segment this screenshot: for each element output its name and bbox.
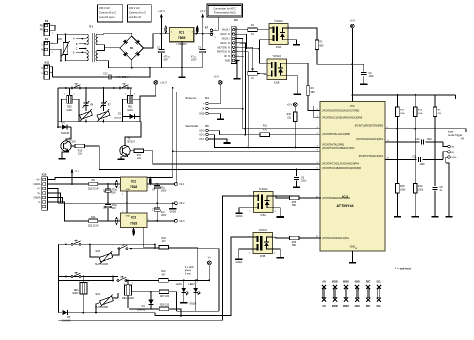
svg-text:(PCINT1/AIN0/ADC1)PA1: (PCINT1/AIN0/ADC1)PA1 [322,237,349,240]
svg-text:G2R2: G2R2 [72,292,79,295]
svg-text:R28 220: R28 220 [160,304,170,307]
svg-text:100k: 100k [400,189,406,192]
svg-text:1: 1 [132,283,133,285]
svg-text:MISO: MISO [343,281,349,283]
svg-text:ATTINY44: ATTINY44 [336,204,354,208]
svg-text:a-b: a-b [75,84,78,86]
svg-text:100V: 100V [161,189,167,192]
svg-text:RE1: RE1 [128,107,133,109]
svg-text:(PCINT4/T1/SCL/USCK/ADC4)PA4: (PCINT4/T1/SCL/USCK/ADC4)PA4 [322,163,359,166]
svg-text:(PCINT3/T0/ADC3)PA3: (PCINT3/T0/ADC3)PA3 [359,155,384,158]
svg-text:IC6B: IC6B [274,81,280,84]
svg-text:PE: PE [40,25,44,28]
svg-text:+12 V: +12 V [158,9,165,13]
svg-text:2: 2 [64,94,65,96]
svg-text:R10: R10 [287,113,292,116]
svg-text:Tr1: Tr1 [89,26,93,29]
svg-text:K5-3: K5-3 [199,130,205,133]
svg-text:R20: R20 [58,38,63,41]
svg-text:SL15 10006: SL15 10006 [95,306,109,309]
svg-text:(PCINT8/XTAL1/CLKI)PB0: (PCINT8/XTAL1/CLKI)PB0 [322,133,350,136]
svg-text:IR, IV: IR, IV [224,55,230,58]
svg-text:a-b: a-b [75,273,78,275]
svg-text:V-*: V-* [37,188,40,191]
svg-text:2Ω5 15 W: 2Ω5 15 W [88,225,99,228]
svg-text:1N4148: 1N4148 [114,117,122,119]
svg-text:TLP222: TLP222 [258,229,267,232]
svg-text:GND: GND [126,215,131,217]
svg-text:50V: 50V [112,191,117,194]
svg-text:Connect A to C: Connect A to C [129,11,146,15]
svg-text:V+: V+ [208,256,212,259]
svg-text:1N4148: 1N4148 [61,132,70,135]
svg-text:C: C [76,48,78,51]
svg-text:VAUX, IV: VAUX, IV [220,33,230,36]
svg-text:Connection for 60°C: Connection for 60°C [213,8,236,11]
svg-text:R14: R14 [91,216,96,219]
svg-text:4k7: 4k7 [162,273,167,276]
svg-text:(PCINT9/XTAL2)PB1: (PCINT9/XTAL2)PB1 [322,144,345,147]
svg-text:VAUX, IV: VAUX, IV [220,42,230,45]
svg-text:MISO: MISO [343,306,349,308]
svg-text:TLP222: TLP222 [259,188,268,191]
svg-text:100n: 100n [301,180,307,183]
svg-text:IC6A: IC6A [276,46,282,49]
svg-text:RE2: RE2 [67,107,72,109]
svg-text:GND: GND [355,306,360,308]
svg-text:a-b: a-b [123,84,126,86]
svg-text:230 V AC: 230 V AC [99,6,110,10]
svg-text:Switch/LED: Switch/LED [185,125,198,128]
svg-text:K10: K10 [42,173,47,176]
svg-text:470: 470 [263,128,268,131]
svg-text:* = see text: * = see text [395,267,411,271]
svg-text:IC4: IC4 [342,195,349,199]
svg-text:R19: R19 [418,185,423,188]
svg-text:VAUX, I: VAUX, I [222,29,231,32]
svg-text:GNDA: GNDA [33,183,40,186]
svg-text:GND: GND [126,189,131,191]
svg-text:SWITCH, IV: SWITCH, IV [217,51,231,54]
svg-text:2Ω5 15 W: 2Ω5 15 W [88,188,99,191]
svg-text:MOSI: MOSI [332,306,338,308]
svg-text:Connect B to C: Connect B to C [99,11,116,15]
svg-text:4k7: 4k7 [162,240,167,243]
svg-text:C12: C12 [103,72,108,75]
svg-text:N: N [41,67,43,70]
svg-text:VAUX, I: VAUX, I [222,38,231,41]
svg-text:680: 680 [292,204,297,207]
svg-text:3: 3 [119,187,120,189]
svg-text:TLP222: TLP222 [272,55,281,58]
svg-text:G2RL: G2RL [127,110,134,112]
svg-text:100V: 100V [191,58,197,61]
svg-text:D: D [73,51,75,54]
svg-text:IC1: IC1 [179,30,184,34]
svg-text:2: 2 [79,281,80,283]
svg-text:V-: V- [38,201,40,204]
svg-text:680: 680 [319,44,324,47]
svg-text:50V: 50V [112,207,117,210]
svg-text:GND: GND [355,281,360,283]
svg-text:(PCINT10/INT0/OC0A/CKOUT)PB2: (PCINT10/INT0/OC0A/CKOUT)PB2 [322,109,360,112]
svg-text:3: 3 [119,219,120,221]
svg-text:IC5A: IC5A [260,214,266,217]
svg-text:100n: 100n [427,138,433,141]
svg-text:+5 V: +5 V [200,9,206,13]
svg-text:MOSI: MOSI [332,281,338,283]
svg-text:and B to D: and B to D [129,15,141,19]
svg-text:100n: 100n [369,75,375,78]
svg-text:K9-3: K9-3 [180,221,186,223]
svg-text:GNDA: GNDA [236,215,243,218]
svg-text:(PCINT5/OC1B/MISO/DO/ADC5)PA5: (PCINT5/OC1B/MISO/DO/ADC5)PA5 [322,167,361,170]
svg-text:K9-2: K9-2 [180,203,186,205]
svg-text:(PCINT2/AIN1/ADC2)PA2: (PCINT2/AIN1/ADC2)PA2 [356,138,383,141]
svg-text:BC337: BC337 [128,140,136,143]
svg-text:R21: R21 [96,293,101,296]
svg-text:SCL: SCL [376,281,381,283]
svg-text:4n7 / 500 V: 4n7 / 500 V [116,76,129,79]
svg-text:TLP222: TLP222 [274,20,283,23]
svg-text:1: 1 [74,94,75,96]
svg-text:K11: K11 [45,62,50,65]
svg-text:C11: C11 [412,155,417,158]
svg-text:R27 220: R27 220 [160,295,170,298]
svg-text:GNDA: GNDA [33,197,40,200]
svg-text:+5V: +5V [322,306,327,308]
svg-text:G2RL: G2RL [66,110,73,112]
svg-text:IK: IK [202,108,205,111]
svg-text:3 mm: 3 mm [185,272,191,275]
svg-text:+5V: +5V [322,281,327,283]
svg-text:a-b: a-b [75,241,78,243]
svg-text:7805: 7805 [178,36,186,40]
svg-text:VCC: VCC [350,105,355,108]
svg-text:IC5B: IC5B [260,255,266,258]
svg-text:RST: RST [366,281,371,283]
svg-text:+12 V: +12 V [160,81,167,85]
svg-text:PE: PE [40,29,44,32]
svg-text:K5-2: K5-2 [199,134,205,137]
svg-text:100n: 100n [420,163,426,166]
svg-text:Thermoswitch (NC): Thermoswitch (NC) [214,12,236,15]
svg-text:GND: GND [452,157,457,159]
svg-text:1N4148: 1N4148 [62,319,71,322]
svg-text:RST: RST [366,306,371,308]
svg-text:1: 1 [122,211,123,213]
svg-text:+5 V: +5 V [214,75,220,79]
svg-text:(PCINT6/OC1A/SDA/MOSI/ADC6)PA6: (PCINT6/OC1A/SDA/MOSI/ADC6)PA6 [322,117,363,120]
svg-text:1: 1 [88,281,89,283]
svg-text:+5 V: +5 V [287,103,293,107]
svg-text:680: 680 [311,91,316,94]
svg-text:R18: R18 [400,185,405,188]
svg-text:GND: GND [199,113,205,116]
svg-text:Audio-Trigger: Audio-Trigger [448,134,463,137]
svg-text:115 V AC: 115 V AC [129,6,140,10]
svg-text:IC2: IC2 [131,180,136,184]
svg-text:+5 V: +5 V [350,19,356,23]
svg-text:IR-Sensor: IR-Sensor [185,97,196,100]
svg-text:SCL: SCL [376,306,381,308]
svg-text:GNDA: GNDA [235,261,242,264]
svg-text:V +: V + [75,169,79,173]
svg-text:100V: 100V [161,214,167,217]
svg-text:1: 1 [134,94,135,96]
svg-text:IC3: IC3 [131,216,136,220]
svg-text:1N4148: 1N4148 [137,308,146,311]
svg-text:2: 2 [122,194,123,196]
svg-text:1: 1 [148,187,149,189]
svg-text:A and D open: A and D open [99,15,115,19]
svg-text:2: 2 [124,283,125,285]
svg-text:7818: 7818 [130,185,137,189]
svg-text:V+*: V+* [37,179,41,182]
svg-text:K5-1: K5-1 [199,138,205,141]
svg-text:R23: R23 [96,250,101,253]
svg-text:(PCINT11/RESET/DW)PB3: (PCINT11/RESET/DW)PB3 [355,126,384,128]
svg-text:C10: C10 [415,138,420,141]
svg-text:a-b: a-b [121,277,124,279]
svg-text:R11: R11 [263,125,268,128]
svg-text:50V: 50V [164,58,169,61]
svg-text:K2: K2 [234,18,238,22]
svg-text:(PCINT7/ICP/OC0B/ADC7)PA7: (PCINT7/ICP/OC0B/ADC7)PA7 [322,147,355,150]
svg-text:GND: GND [225,60,231,63]
svg-text:100k: 100k [418,189,424,192]
svg-text:SL15 10006: SL15 10006 [95,263,109,266]
svg-text:K9-1: K9-1 [180,184,186,186]
svg-text:7918: 7918 [130,221,137,225]
svg-text:N: N [41,49,43,52]
svg-text:680: 680 [292,244,297,247]
svg-text:BC337: BC337 [69,140,77,143]
svg-text:MOTOR, IV: MOTOR, IV [218,46,231,49]
svg-text:LED2: LED2 [188,283,195,286]
svg-text:a-b: a-b [122,245,125,247]
svg-text:2: 2 [125,94,126,96]
svg-text:GNDA: GNDA [169,211,176,214]
svg-text:LED1: LED1 [176,283,183,286]
